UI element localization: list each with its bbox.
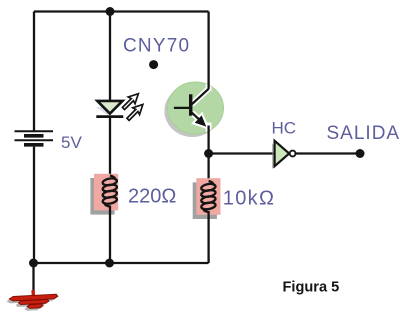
wire emitter down to R2 — [207, 126, 209, 183]
wire R1 to bottom rail — [109, 206, 111, 264]
wire inverter output — [296, 152, 361, 154]
wire collector top — [207, 12, 209, 90]
svg-text:220Ω: 220Ω — [128, 186, 176, 208]
LED D1 — [96, 90, 146, 122]
svg-text:CNY70: CNY70 — [123, 36, 190, 57]
resistor R1 220 ohm — [90, 174, 118, 215]
wire R2 to bottom rail — [207, 211, 209, 263]
CNY70 marker dot — [149, 60, 158, 69]
ground — [6, 289, 59, 312]
wire LED branch upper — [109, 12, 111, 102]
inverter U1 HC — [272, 141, 296, 169]
wire ground stub — [32, 263, 34, 292]
transistor Q1 (phototransistor) — [164, 78, 223, 138]
svg-text:10kΩ: 10kΩ — [223, 188, 275, 210]
wire to inverter input — [209, 152, 275, 154]
wire bottom rail — [34, 262, 209, 264]
node output terminal — [356, 149, 365, 158]
resistor R2 10k ohm — [193, 178, 221, 219]
svg-text:HC: HC — [272, 119, 297, 138]
node junction top (LED branch) — [106, 7, 115, 16]
node junction bottom (LED branch) — [105, 259, 114, 268]
svg-text:Figura 5: Figura 5 — [283, 280, 340, 296]
node junction emitter/output — [204, 149, 213, 158]
svg-text:5V: 5V — [61, 133, 82, 152]
wire battery to bottom rail — [33, 147, 35, 263]
wire top rail — [34, 10, 209, 12]
wire left vertical (battery +) — [33, 12, 35, 131]
svg-text:SALIDA: SALIDA — [327, 123, 400, 144]
wire LED to R1 — [109, 118, 111, 178]
node junction bottom-left — [29, 259, 38, 268]
battery 5V — [15, 131, 54, 145]
